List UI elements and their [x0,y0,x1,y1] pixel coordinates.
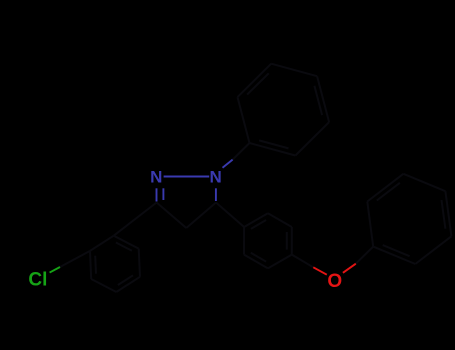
N2=C3 double bond (blue) [157,188,164,201]
O left bond red half [313,267,327,274]
benzene ring A (N1-phenyl) [238,64,330,156]
Cl bond green half [50,267,60,273]
svg-text:O: O [327,271,342,292]
dark half of N1-phenyl bond [233,143,250,160]
O right bond red half [343,264,356,273]
N1-phenyl bond blue half [223,160,233,168]
dark half of Cl bond [60,251,90,267]
svg-text:N: N [150,168,162,187]
pyrazoline C3-C4 and C4-C5 bonds [157,203,216,229]
N1-C5 bond (blue) [215,188,217,201]
dark half of O left bond [292,255,314,268]
benzene ring C (phenylene) [244,213,292,268]
N-N single bond [164,176,210,178]
svg-text:N: N [210,168,222,187]
dark half of O right bond [356,247,373,264]
bond C3 to chlorophenyl ipso [114,203,157,236]
benzene ring D (phenoxy phenyl) [367,174,451,264]
bond C5 to phenylene ipso [216,203,244,228]
svg-text:Cl: Cl [28,270,47,291]
benzene ring B (chlorophenyl) [90,236,140,292]
